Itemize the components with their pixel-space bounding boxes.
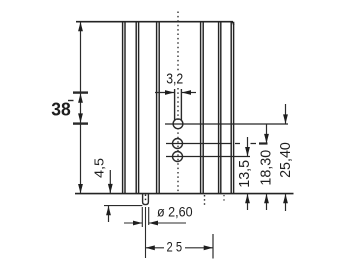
left arrow pointing right	[124, 222, 142, 224]
svg-text:25,40: 25,40	[278, 142, 294, 178]
bottom edge of body	[75, 193, 294, 195]
fin line left edge b	[124, 22, 126, 194]
hole 2 centerline extension	[166, 143, 232, 145]
fin pair 2a	[135, 22, 137, 194]
hole 2	[173, 139, 183, 149]
arrow up at top	[78, 22, 83, 31]
left arrowhead pointing left	[146, 245, 155, 250]
upper arrow down to hole3 level	[247, 137, 249, 156]
svg-text:2 5: 2 5	[167, 239, 183, 255]
right edge a	[230, 22, 232, 194]
stray dots below fin pair 5	[223, 195, 225, 202]
right edge b	[233, 22, 235, 194]
top right rounded corner	[230, 22, 234, 25]
slot hole centerline extended right to 25,40 dim	[165, 123, 288, 125]
small dash artifact above 8	[68, 100, 74, 102]
svg-text:13,5: 13,5	[237, 160, 253, 188]
pin left extension	[141, 207, 143, 227]
svg-text:3,2: 3,2	[166, 70, 183, 87]
fin pair 4b	[202, 22, 204, 194]
upper arrow pointing down to bottom edge	[109, 170, 111, 193]
38 dim line lower	[80, 125, 82, 194]
slot side right	[180, 89, 182, 121]
fin pair 3a	[156, 22, 158, 194]
hole 3	[173, 152, 183, 162]
svg-text:ø 2,60: ø 2,60	[157, 203, 193, 219]
hole2 level end tick	[259, 142, 268, 144]
pin outline	[143, 194, 149, 205]
fin pair 2b	[138, 22, 140, 194]
right arrowhead pointing right	[204, 245, 213, 250]
fin line left edge a	[122, 22, 124, 194]
hole level extension lines	[165, 124, 288, 157]
lower arrow pointing up to pin tip level	[108, 206, 110, 222]
pin right extension	[148, 207, 150, 225]
38 dim line upper	[80, 22, 82, 92]
fin pair 4a	[200, 22, 202, 194]
pin tip level line	[104, 205, 142, 207]
dim line left segment	[146, 247, 165, 249]
top edge with left extension	[76, 21, 233, 23]
slot end hole	[173, 119, 183, 129]
svg-text:38: 38	[51, 99, 70, 120]
left arrow pointing right	[155, 92, 174, 94]
tick upper	[73, 91, 88, 93]
right extension line	[212, 234, 214, 259]
upper arrow down to slot hole level	[285, 104, 287, 124]
svg-text:4,5: 4,5	[91, 158, 106, 178]
lower arrow up to bottom level	[247, 194, 249, 210]
lower arrow up to bottom level	[285, 194, 287, 211]
right arrow pointing left, tail under text	[149, 222, 186, 224]
pin center extension down to 25 dim	[145, 207, 147, 258]
fin pair 3b	[158, 22, 160, 194]
lower arrow up to bottom level	[266, 194, 268, 210]
arrow down at bottom	[78, 184, 83, 193]
fin pair 5b	[220, 22, 222, 194]
hole 3 centerline extension to 13,5 dim	[166, 156, 250, 158]
slot side left	[174, 89, 176, 121]
38 double arrow segment	[80, 94, 82, 123]
svg-text:18,30: 18,30	[259, 150, 275, 186]
pin centerline dots	[145, 195, 147, 202]
stray dots below fin pair 4	[204, 195, 206, 205]
fin pair 5a	[218, 22, 220, 194]
hole2 level dashes	[235, 143, 240, 145]
dim line right segment	[185, 247, 213, 249]
upper arrow down to hole2 level	[266, 124, 268, 143]
centerline (dash-dot vertical)	[177, 12, 179, 194]
right arrow pointing left	[182, 92, 196, 94]
tick lower	[73, 122, 88, 124]
